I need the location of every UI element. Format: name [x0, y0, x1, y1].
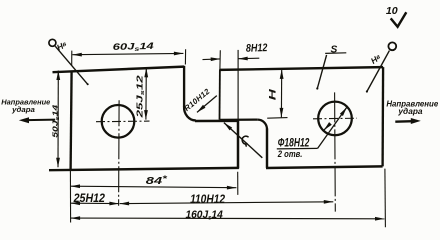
dimension 60Js14 right extension [184, 49, 186, 64]
right bottom extension line [384, 169, 387, 228]
dimension H line [280, 69, 282, 117]
svg-text:84*: 84* [146, 173, 168, 187]
sharp corner leader [224, 123, 262, 158]
part 1 left edge [71, 71, 72, 170]
dimension 60Js14 left extension [71, 51, 73, 66]
part 1 fillet R10 [184, 107, 196, 121]
part 2 fillet R10 [258, 120, 267, 130]
right datum flag leader [367, 51, 390, 92]
hole label underline [277, 147, 318, 150]
dimension H extension (shelf extended) [267, 117, 287, 120]
right datum dot [366, 90, 368, 92]
dimension 60Js14 line [72, 53, 183, 54]
dimension 84* line [71, 186, 237, 188]
S leader dot [316, 87, 318, 89]
left direction arrow shaft [27, 119, 55, 122]
svg-text:удара: удара [397, 107, 423, 116]
svg-text:Нв: Нв [369, 52, 383, 66]
part 1 top edge [53, 67, 185, 73]
dimension 50Js14 line [57, 71, 59, 168]
dimension 84* right extension [237, 172, 239, 195]
hole leader diagonal [318, 107, 347, 148]
dimension 160Js14 line [71, 217, 385, 220]
part 1 right edge thick [237, 121, 240, 169]
right direction arrow shaft [395, 120, 413, 123]
dimension 8H12 left tail [203, 58, 221, 61]
dimension 110H12 line [120, 202, 334, 204]
dimension 8H12 right extension / part1 edge seen thin [237, 50, 239, 121]
S leader [317, 55, 326, 89]
right hole horizontal centerline [313, 117, 357, 120]
svg-text:R10Н12: R10Н12 [182, 87, 211, 114]
svg-text:S: S [331, 45, 338, 56]
roughness check symbol [391, 12, 407, 27]
svg-text:110Н12: 110Н12 [190, 193, 225, 206]
left datum flag circle [49, 39, 56, 46]
svg-text:удара: удара [11, 105, 35, 114]
right hole vertical centerline [334, 92, 337, 211]
svg-text:Нв: Нв [55, 39, 69, 52]
part 2 left edge [219, 69, 221, 119]
right direction arrow head [411, 118, 421, 124]
right hole Ф18 [318, 102, 352, 136]
svg-text:Ф18Н12: Ф18Н12 [278, 135, 310, 149]
right datum flag circle [388, 42, 396, 50]
hole leader inner arrowhead [324, 125, 329, 131]
part 2 shelf [220, 118, 258, 121]
svg-text:50Js14: 50Js14 [51, 104, 61, 138]
dimension 8H12 left extension [219, 50, 221, 69]
dimension 25H12 line [71, 202, 119, 204]
svg-text:8Н12: 8Н12 [246, 42, 268, 55]
dimension 25Js12 line [145, 68, 147, 120]
part 1 step vertical edge [183, 66, 185, 107]
svg-text:2 отв.: 2 отв. [277, 149, 302, 160]
svg-text:60Js14: 60Js14 [113, 41, 154, 54]
part 2 top edge [220, 67, 383, 70]
part 1 shelf [195, 120, 239, 123]
part 1 bottom edge [49, 168, 239, 170]
dimension 8H12 right tail [238, 57, 259, 60]
handwritten squiggle on leader [242, 136, 248, 146]
R10H12 leader with arrow [197, 96, 217, 113]
left direction arrow head [19, 117, 29, 123]
svg-text:25Js12: 25Js12 [136, 75, 146, 119]
left datum dot [87, 83, 89, 85]
part 2 bottom edge [266, 166, 383, 168]
left hole Ф18 [102, 105, 135, 138]
part 2 notch right edge [266, 129, 268, 168]
left hole vertical centerline [118, 100, 121, 206]
part 2 right edge [381, 67, 384, 166]
S underline [325, 52, 346, 55]
svg-text:160Js14: 160Js14 [185, 209, 223, 221]
svg-text:10: 10 [386, 6, 398, 17]
svg-text:Н: Н [267, 89, 277, 101]
svg-text:25Н12: 25Н12 [73, 192, 106, 205]
left hole horizontal centerline [96, 120, 150, 123]
left datum flag leader [55, 46, 87, 84]
left bottom extension line [69, 171, 71, 223]
